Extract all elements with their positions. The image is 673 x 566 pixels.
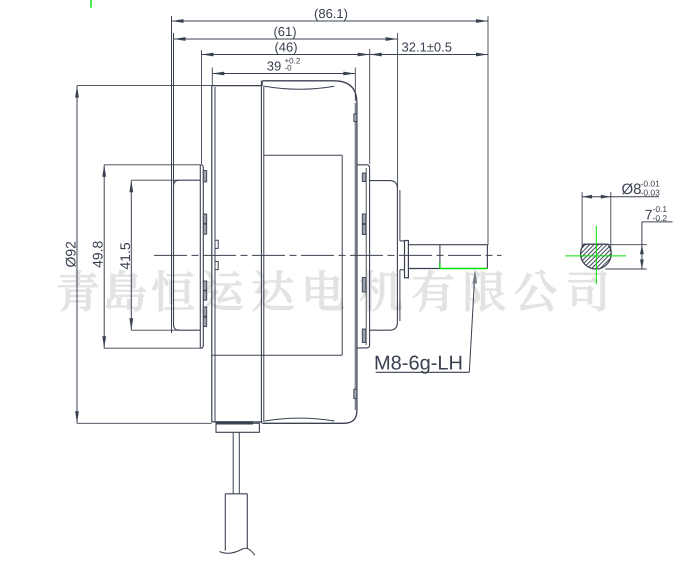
shell rolled lip arc bottom [265, 418, 335, 421]
front bracket tabs [362, 173, 366, 343]
cable sleeve [225, 494, 247, 551]
stack rear edge jogs [215, 240, 218, 269]
watermark char 限 [466, 271, 505, 311]
stator stack rear edge (double line) [212, 86, 215, 423]
green tick mark top-left [90, 0, 92, 8]
front hub flange [405, 241, 409, 278]
stack bottom edge [212, 421, 262, 423]
shell inner line right [354, 103, 356, 410]
shell rolled lip arc top [265, 86, 335, 89]
dimension 32.1±0.5 text [402, 40, 453, 55]
dimension 49.8 text [90, 240, 106, 267]
dimension (61) text [273, 24, 296, 39]
shaft threaded bottom edge highlighted [440, 268, 488, 270]
watermark char 运 [202, 271, 243, 311]
extension line 61 right [397, 33, 399, 188]
dimension 7 extensions [605, 245, 647, 269]
dimension 7 text [645, 204, 668, 223]
watermark char 达 [253, 271, 294, 311]
svg-text:32.1±0.5: 32.1±0.5 [402, 40, 453, 55]
dimension 39 line [212, 72, 355, 76]
dimension Ø8 line [582, 195, 659, 199]
svg-text:Ø8: Ø8 [622, 181, 642, 198]
shaft bottom edge rear part [408, 268, 440, 270]
svg-text:-0.03: -0.03 [641, 188, 661, 198]
extension line 39 right [354, 68, 356, 102]
dimension (86.1) line [172, 19, 489, 23]
detail center mark green [565, 226, 626, 284]
extension line 46/32.1 [369, 49, 371, 164]
watermark company name [58, 270, 606, 311]
svg-text:-0: -0 [285, 64, 293, 73]
front endbell face inner line [399, 190, 401, 321]
svg-text:39: 39 [267, 59, 281, 74]
lead wires [233, 432, 239, 494]
rear bracket plate dia 49.8 [200, 165, 203, 348]
dimension 7 line [640, 222, 673, 269]
dimension 49.8 line [102, 165, 106, 348]
cable grommet [216, 421, 260, 432]
leader M8-6g-LH arrowhead [473, 269, 478, 283]
leader M8-6g-LH text [374, 353, 463, 375]
svg-text:(61): (61) [273, 24, 296, 39]
dimension 39 text [267, 57, 301, 74]
shell crimp tab top [354, 114, 357, 122]
extension line 46 left [201, 50, 203, 164]
dimension Ø8 text [622, 179, 661, 199]
watermark char 公 [515, 270, 556, 311]
rear hub outline dia 41.5 [174, 180, 201, 330]
watermark char 有 [413, 270, 453, 311]
shell mouth edge (double line) [261, 81, 263, 424]
watermark char 青 [58, 270, 98, 311]
cable break wave [220, 548, 255, 555]
svg-text:49.8: 49.8 [90, 240, 106, 267]
dimension (61) line [174, 37, 398, 41]
dimension Ø92 text [63, 241, 79, 268]
svg-text:41.5: 41.5 [117, 242, 133, 269]
dimension Ø92 extension top [77, 85, 212, 87]
centerline [154, 254, 502, 256]
svg-text:(86.1): (86.1) [314, 6, 348, 21]
stator core inner outline [212, 155, 342, 355]
dimension 32.1±0.5 line [370, 53, 488, 57]
detail D-section outline [581, 244, 612, 269]
detail section hatching [555, 229, 670, 275]
front bracket plate [357, 165, 370, 348]
dimension Ø8 extensions [582, 192, 611, 252]
dimension 41.5 line [129, 180, 133, 330]
rear bracket tabs [203, 171, 206, 327]
shaft end edge [486, 245, 488, 269]
front hub boss [400, 241, 405, 270]
shell outline [262, 81, 357, 424]
rear hub end face lines (leftmost edges of motor) [172, 16, 174, 333]
watermark char 司 [569, 271, 607, 311]
shaft top edge [408, 244, 487, 246]
svg-text:M8-6g-LH: M8-6g-LH [374, 353, 463, 375]
watermark char 恒 [153, 270, 194, 311]
watermark char 电 [306, 270, 343, 309]
dimension Ø92 extension bottom [77, 422, 212, 424]
detail hatch clip [0, 0, 1, 1]
dimension 41.5 extensions [131, 180, 179, 330]
watermark char 島 [106, 270, 146, 311]
svg-text:(46): (46) [274, 40, 297, 55]
leader M8-6g-LH underline and line [376, 282, 475, 372]
stack top edge [212, 85, 262, 87]
shaft step line [439, 245, 441, 269]
dimension (86.1) text [314, 6, 348, 21]
dimension 41.5 text [117, 242, 133, 269]
dimension (46) line [202, 53, 370, 57]
shell crimp tab bottom [354, 389, 357, 398]
shaft step green mark [439, 263, 441, 269]
svg-text:-0.2: -0.2 [653, 213, 668, 223]
svg-text:Ø92: Ø92 [63, 241, 79, 268]
watermark char 机 [360, 271, 401, 312]
extension line 86.1/32.1 right [487, 16, 489, 245]
dimension (46) text [274, 40, 297, 55]
dimension Ø92 line [75, 86, 79, 424]
front endbell outline [370, 181, 398, 331]
dimension 49.8 extensions [104, 165, 200, 348]
extension line 39 left [211, 68, 213, 86]
